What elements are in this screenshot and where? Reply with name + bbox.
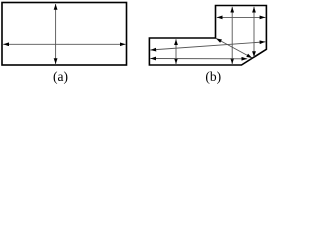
vertical double arrow tower tall right to chamfer bbox=[253, 7, 255, 57]
svg-text:(b): (b) bbox=[205, 69, 221, 84]
vertical double arrow tower tall left bbox=[231, 7, 233, 64]
svg-text:(a): (a) bbox=[53, 69, 68, 84]
horizontal double arrow tower bbox=[217, 16, 266, 18]
shallow diagonal double arrow full width bbox=[150, 42, 265, 50]
vertical double arrow panel a bbox=[55, 4, 57, 64]
rectangle outline panel a bbox=[2, 3, 127, 66]
polygon outline panel b bbox=[149, 6, 266, 66]
lower horizontal double arrow bar bbox=[150, 58, 247, 60]
steep diagonal double arrow corner to chamfer bbox=[216, 38, 252, 58]
vertical double arrow bar bbox=[175, 39, 177, 64]
horizontal double arrow panel a bbox=[3, 43, 125, 45]
